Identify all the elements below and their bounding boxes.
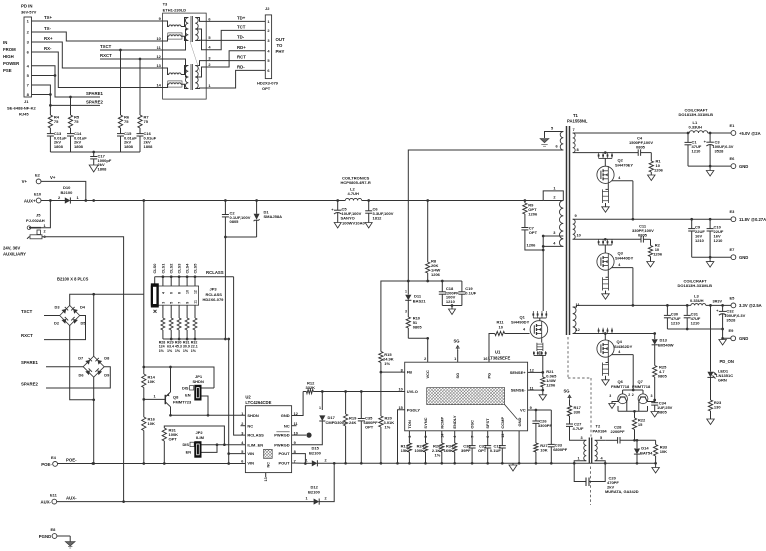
svg-text:15: 15 [398, 406, 402, 410]
svg-text:2: 2 [325, 458, 327, 462]
svg-text:E2: E2 [35, 173, 41, 178]
resistor R33 10K [654, 440, 668, 463]
svg-text:FB: FB [407, 370, 412, 375]
terminal E4 POE- [41, 455, 77, 467]
wire T1 pin 8 row [573, 151, 639, 154]
resistor R1 10 1206 snubber [649, 153, 663, 175]
capacitor C27 4.7UF [566, 422, 586, 441]
svg-text:6: 6 [241, 459, 243, 463]
svg-text:1210: 1210 [446, 299, 456, 304]
svg-text:1210: 1210 [695, 238, 705, 243]
svg-text:1%: 1% [385, 425, 391, 430]
node SG flag (secondary gate) [564, 389, 572, 401]
svg-text:HCP0805-4R7-R: HCP0805-4R7-R [341, 180, 371, 185]
wire SENSE- row [528, 389, 545, 392]
wire Q2 source ladder and ground [602, 183, 610, 212]
wire RCT (T3-3 to J2-5) [206, 55, 265, 61]
svg-text:1206: 1206 [654, 168, 664, 173]
svg-text:HIGH: HIGH [3, 54, 14, 59]
svg-text:CLS2: CLS2 [169, 263, 174, 274]
wire SHDN branch top [144, 366, 214, 388]
svg-text:3300PF: 3300PF [538, 423, 553, 428]
svg-text:D6: D6 [79, 373, 85, 378]
svg-text:D7: D7 [78, 356, 83, 361]
wire bridge 2 bottom to VIN return [92, 377, 95, 465]
svg-text:75: 75 [144, 119, 149, 124]
resistor R32 22.1 1% class resistor [191, 318, 198, 353]
IC U2 LTC4264CDE PD interface controller [241, 395, 298, 482]
svg-text:CLS3: CLS3 [177, 263, 182, 274]
wire Q2 gate drive [612, 176, 635, 221]
transistor Q4 Si4362DY sync FET 3.3V [597, 328, 633, 357]
svg-text:0.33UH: 0.33UH [690, 298, 704, 303]
svg-text:TON: TON [407, 420, 412, 428]
wire SPARE1 net (J1-4,5) [32, 66, 104, 115]
wire U2 NC pin 2 stub [241, 425, 246, 427]
capacitor C1 47UF 1210 [685, 133, 702, 166]
svg-text:330: 330 [574, 410, 581, 415]
svg-text:E7: E7 [730, 247, 736, 252]
svg-text:PD_ON: PD_ON [720, 359, 734, 364]
svg-text:16: 16 [483, 357, 487, 361]
svg-text:CCMP: CCMP [500, 416, 505, 428]
wire driver emitter bus [618, 402, 648, 413]
svg-text:TCT: TCT [237, 24, 246, 29]
resistor R25 4.7 0805 [653, 345, 668, 402]
svg-text:0805: 0805 [230, 219, 240, 224]
svg-text:D2: D2 [54, 321, 60, 326]
wire 11.8V return [692, 256, 731, 259]
terminal E9 GND [729, 328, 749, 341]
svg-text:BAT54: BAT54 [640, 450, 653, 455]
capacitor C18 2200PF 100V [439, 281, 459, 306]
svg-text:VC: VC [520, 408, 526, 413]
svg-text:1: 1 [578, 457, 580, 461]
transformer T3 ETH1-230LD [156, 2, 211, 100]
svg-text:6: 6 [170, 292, 174, 294]
svg-text:1210: 1210 [671, 321, 681, 326]
capacitor C28 2200PF gate drive coupling [605, 425, 655, 444]
svg-text:4.7UF: 4.7UF [573, 426, 584, 431]
wire primary return rail (POUT) [317, 462, 657, 465]
svg-text:SPARE1: SPARE1 [21, 360, 38, 365]
wire 11.8V secondary row (T1 pin 9) [573, 218, 731, 221]
resistor R31 30.9 1% class resistor [183, 318, 190, 353]
svg-text:SPARE2: SPARE2 [21, 382, 38, 387]
svg-text:9: 9 [186, 302, 190, 304]
svg-text:1812: 1812 [373, 216, 383, 221]
svg-text:1: 1 [154, 395, 156, 399]
svg-text:POWER: POWER [3, 61, 20, 66]
svg-text:POUT: POUT [278, 461, 290, 466]
wire 3.3V secondary row (T1 pin 11) [573, 304, 691, 307]
svg-text:3: 3 [241, 431, 243, 435]
diode D10 B2100 [41, 185, 86, 204]
header JP2 ILIM jumper [183, 430, 246, 458]
svg-text:RD-: RD- [237, 64, 245, 69]
svg-text:0805: 0805 [636, 145, 646, 150]
svg-text:RCLASS: RCLASS [206, 292, 223, 297]
svg-text:1206: 1206 [431, 272, 441, 277]
svg-text:2200PF: 2200PF [611, 429, 626, 434]
wire Q3 gate drive [612, 263, 635, 307]
node B2100 X 8 PLCS note [57, 277, 89, 282]
svg-text:12: 12 [193, 290, 197, 294]
svg-text:SENSE+: SENSE+ [510, 370, 527, 375]
svg-text:CLS1: CLS1 [160, 263, 165, 274]
wire Q4 source ladder and ground [602, 357, 610, 385]
svg-text:B2100: B2100 [61, 190, 74, 195]
svg-text:130: 130 [714, 405, 721, 410]
svg-text:SMAJ58A: SMAJ58A [264, 214, 283, 219]
svg-text:DO1813H-331MLB: DO1813H-331MLB [679, 112, 714, 117]
capacitor C13 0.01uF 2kV [47, 128, 67, 152]
svg-text:7: 7 [573, 127, 575, 132]
resistor R29 63.4 1% class resistor [167, 318, 174, 353]
svg-text:1: 1 [306, 497, 308, 501]
svg-text:HD2X6-079: HD2X6-079 [203, 297, 225, 302]
svg-text:CLS0: CLS0 [152, 264, 157, 274]
svg-text:PHY: PHY [276, 49, 285, 54]
wire TXCT net (to T3-11) [100, 44, 163, 115]
svg-text:15K: 15K [401, 448, 408, 453]
svg-text:SHDN: SHDN [193, 379, 204, 384]
svg-text:SHDN: SHDN [247, 413, 258, 418]
wire SPARE1 to bridge 2 [21, 360, 83, 367]
svg-text:75: 75 [74, 119, 79, 124]
svg-text:E5: E5 [730, 296, 736, 301]
wire VCC feed [408, 337, 429, 362]
svg-text:10: 10 [186, 290, 190, 294]
diode D17 CMPD3003 [319, 392, 347, 425]
wire SHDN row to U2 pin 1 [169, 414, 245, 417]
svg-text:T3: T3 [163, 2, 168, 7]
svg-text:TD-: TD- [237, 34, 245, 39]
transistor Q8 FMMT723 [144, 367, 192, 415]
ground (primary rail) [509, 463, 517, 471]
svg-text:PD IN: PD IN [21, 4, 32, 9]
svg-text:Si4362DY: Si4362DY [614, 344, 633, 349]
svg-text:RJ45: RJ45 [19, 112, 29, 117]
svg-text:10: 10 [156, 36, 160, 41]
transformer T2 PA0184 gate drive [574, 424, 607, 464]
capacitor C17 1000pF 2kV [90, 152, 112, 171]
svg-text:0805: 0805 [658, 374, 668, 379]
wire TD+ (T3-6 to J2-1) [206, 15, 265, 21]
svg-text:EN: EN [185, 393, 191, 398]
svg-text:PJ-002AH: PJ-002AH [26, 218, 45, 223]
bridge rectifier D3 D4 D2 D5 (B2100) [54, 305, 86, 326]
svg-text:1%: 1% [175, 349, 181, 353]
svg-text:FMMT723: FMMT723 [173, 400, 192, 405]
resistor R26 2.1K 1% (RCMP) [432, 443, 444, 463]
svg-text:3528: 3528 [726, 318, 736, 323]
wire TD- (T3-5 to J2-3) [206, 34, 265, 40]
svg-text:0.1UF: 0.1UF [465, 290, 476, 295]
svg-text:2: 2 [628, 393, 630, 397]
svg-text:6800PF: 6800PF [553, 447, 568, 452]
capacitor C19 0.1UF [458, 281, 476, 306]
svg-text:OUT: OUT [276, 37, 285, 42]
svg-text:SPARE2: SPARE2 [86, 100, 103, 105]
svg-text:ENDLY: ENDLY [452, 415, 457, 429]
ground (LED) [707, 419, 715, 425]
svg-text:1: 1 [241, 412, 243, 416]
svg-text:3: 3 [405, 310, 407, 314]
diode D11 BAS21 [405, 281, 426, 314]
svg-text:B2100 X 8 PLCS: B2100 X 8 PLCS [57, 277, 89, 282]
ground (sense) [539, 390, 547, 400]
svg-text:36V-57V: 36V-57V [21, 10, 37, 15]
terminal E5 3.3V [730, 296, 762, 309]
ground (C6) [365, 223, 372, 229]
terminal E2 V+ [22, 173, 41, 185]
svg-text:OPT: OPT [478, 448, 487, 453]
svg-text:SE-6488-NF-K2: SE-6488-NF-K2 [7, 106, 36, 111]
svg-text:332K: 332K [306, 385, 316, 390]
svg-text:GND: GND [281, 413, 290, 418]
svg-text:0805: 0805 [413, 325, 423, 330]
svg-text:J5: J5 [36, 213, 41, 218]
capacitor C26 3300PF (VC) [532, 410, 552, 443]
svg-text:SYNC: SYNC [423, 417, 428, 428]
capacitor C30 47UF 1210 [664, 305, 681, 329]
wire U2 VIN pin 5 [229, 453, 246, 455]
terminal E11 AUX- [40, 493, 77, 505]
svg-text:E4: E4 [51, 455, 57, 460]
resistor R6 75 [118, 115, 129, 129]
svg-text:75: 75 [54, 119, 59, 124]
resistor R5 75 [68, 115, 79, 129]
svg-text:DO1813H-331MLB: DO1813H-331MLB [678, 283, 713, 288]
svg-text:SG: SG [564, 389, 570, 394]
wire +5V return [688, 165, 731, 168]
svg-text:11: 11 [193, 300, 197, 304]
capacitor C15 0.01uF 2kV [117, 128, 137, 152]
capacitor C6 3.3UF 100V 1812 [365, 201, 394, 223]
svg-text:SG: SG [454, 339, 460, 344]
resistor R27 10K (VC) [534, 443, 549, 463]
capacitor C2 0.1uF 100V input bypass [222, 201, 251, 238]
resistor R22 15 driver output [632, 411, 646, 441]
svg-text:POUT: POUT [278, 451, 290, 456]
resistor R12 332K [303, 381, 315, 394]
ground (VCC caps) [449, 304, 456, 314]
svg-text:B2100: B2100 [309, 450, 322, 455]
svg-text:FMMT718: FMMT718 [611, 384, 630, 389]
ground (11.8V output) [706, 257, 714, 267]
inductor L3 0.33UH Coilcraft [678, 279, 732, 307]
svg-text:RCT: RCT [237, 55, 246, 60]
svg-text:E6: E6 [730, 156, 736, 161]
svg-text:1206: 1206 [527, 243, 537, 248]
wire RXCT to bridge 1 [21, 316, 86, 340]
svg-text:24V, 36V: 24V, 36V [3, 246, 20, 251]
svg-text:10: 10 [577, 233, 581, 238]
svg-text:3528: 3528 [715, 149, 725, 154]
svg-text:TX-: TX- [44, 26, 51, 31]
svg-text:V+: V+ [50, 175, 56, 180]
svg-text:E10: E10 [34, 192, 42, 197]
wire Q7 collector to bias node [647, 401, 655, 403]
wire TCT (J2-2 to T3-4) [206, 24, 265, 49]
svg-text:OPT: OPT [169, 437, 178, 442]
wire bridge 1 negative output [70, 326, 95, 402]
svg-text:1808: 1808 [144, 144, 154, 149]
svg-text:3.3V @2.5A: 3.3V @2.5A [739, 303, 762, 308]
svg-text:D4: D4 [80, 305, 86, 310]
svg-text:VIN: VIN [247, 461, 254, 466]
svg-text:1808: 1808 [98, 166, 108, 171]
resistor R16 10K [142, 399, 156, 464]
svg-text:RX-: RX- [44, 46, 52, 51]
svg-text:1%: 1% [159, 349, 165, 353]
svg-text:4: 4 [161, 292, 165, 294]
svg-text:1808: 1808 [74, 144, 84, 149]
svg-text:1206: 1206 [528, 212, 538, 217]
wire J5 tip to AUX+ rail [41, 201, 50, 228]
wire PGDLY to rail [398, 410, 405, 464]
svg-text:1206: 1206 [546, 382, 556, 387]
wire RD+ (J2-4 to T3-2) [206, 45, 265, 67]
svg-text:3: 3 [161, 302, 165, 304]
wire class resistor common rail [163, 338, 229, 341]
svg-text:PG: PG [486, 373, 491, 379]
wire U2 VIN pin 6 / POE- rail left [58, 462, 246, 465]
svg-text:OPT: OPT [262, 86, 271, 91]
svg-text:NC: NC [284, 423, 290, 428]
svg-text:PA0184: PA0184 [593, 428, 608, 433]
svg-text:B2100: B2100 [308, 489, 321, 494]
svg-text:10K: 10K [540, 448, 547, 453]
svg-text:75: 75 [124, 119, 129, 124]
wire switch node T1-3,4 to Q1 drain [542, 246, 544, 311]
svg-text:0805: 0805 [638, 233, 648, 238]
capacitor C10 22UF 16V 1210 [707, 219, 724, 257]
ground (R2) [647, 262, 655, 268]
capacitor C9 22UF 16V 1210 [688, 219, 705, 257]
wire RX+ (J1-3 to T3-13) [32, 36, 163, 68]
wire V+ from E2 to AUX rail [41, 175, 86, 201]
resistor R17 330 [567, 400, 581, 424]
svg-text:3R3V: 3R3V [713, 300, 723, 304]
svg-text:SPARE1: SPARE1 [86, 91, 103, 96]
svg-text:EN: EN [186, 450, 192, 455]
svg-text:E9: E9 [729, 328, 735, 333]
svg-text:1: 1 [306, 458, 308, 462]
wire bias node row [408, 280, 462, 283]
capacitor C16 0.01uF 2kV [137, 128, 157, 152]
svg-text:POE-: POE- [41, 462, 52, 467]
svg-text:D3: D3 [55, 305, 61, 310]
svg-text:DIS: DIS [182, 386, 189, 391]
svg-text:13: 13 [264, 477, 268, 481]
transformer T1 PA1558NL [408, 113, 588, 335]
svg-text:BAS21: BAS21 [413, 298, 427, 303]
diode D15 B2100 output disconnect [305, 446, 327, 467]
svg-text:1%: 1% [435, 453, 441, 458]
capacitor C20 470PF Y-cap isolation [574, 463, 639, 494]
resistor R28 124 1% class resistor [159, 318, 166, 353]
wire RX- (J1-6 to T3-14) [32, 46, 163, 88]
connector J1 RJ45 SI-6488-NF-K2 (PD input) [3, 4, 37, 117]
resistor R30 45.3 1% class resistor [175, 318, 182, 353]
capacitor C31 OPT (SFST) [478, 443, 491, 463]
transistor Q1 Si4490DY primary MOSFET [511, 311, 548, 338]
svg-text:D5: D5 [81, 321, 87, 326]
svg-text:AUX+: AUX+ [24, 199, 36, 204]
wire Q1 source ladder [533, 338, 547, 372]
svg-text:LTC4264CDE: LTC4264CDE [245, 400, 271, 405]
wire isolation boundary (dashed) [568, 337, 591, 505]
svg-text:1808: 1808 [54, 144, 64, 149]
resistor R4 75 [48, 115, 59, 129]
svg-text:2: 2 [632, 393, 634, 397]
svg-text:AUX-: AUX- [40, 500, 51, 505]
wire bridge 1 positive output [70, 293, 144, 306]
terminal E10 AUX+ [24, 192, 42, 204]
svg-text:HD2X3-079: HD2X3-079 [257, 81, 279, 86]
svg-text:GND: GND [517, 418, 522, 427]
wire U2 POUT pin 8 [292, 454, 307, 465]
svg-text:OPT: OPT [529, 230, 538, 235]
svg-text:10K: 10K [660, 449, 667, 454]
resistor R24 100K (SYNC) [414, 443, 427, 463]
diode D13 B0540W [652, 334, 674, 348]
svg-text:PGND: PGND [39, 534, 51, 539]
svg-text:GRN: GRN [718, 378, 727, 383]
capacitor C34 1UF 25V 0805 [651, 400, 673, 417]
svg-text:0.33UH: 0.33UH [689, 125, 703, 130]
svg-text:11.8V @0.27A: 11.8V @0.27A [739, 217, 766, 222]
resistor R15 24.9K 1% [379, 281, 409, 373]
svg-text:ILIM: ILIM [196, 435, 205, 440]
svg-text:TX+: TX+ [44, 15, 52, 20]
ground (Q6 collector) [609, 402, 619, 409]
wire RXCT net (to T3-12) [100, 53, 163, 115]
diode D12 B2100 aux OR-ing [306, 463, 335, 504]
node SG flag at U1 pin 1 [454, 339, 460, 363]
svg-text:3: 3 [651, 394, 653, 398]
svg-text:+5.0V @2A: +5.0V @2A [739, 131, 761, 136]
svg-text:10: 10 [499, 325, 504, 330]
capacitor C3 100UF 6.3V 3528 [704, 133, 734, 166]
svg-text:PGDLY: PGDLY [407, 407, 421, 412]
connector J2 HD2X3-079 (to PHY) [257, 6, 285, 91]
wire VCC cap return [442, 305, 462, 307]
resistor R21 0.065 1/4W sense [541, 369, 557, 390]
ground (C5) [334, 223, 341, 229]
wire AUX- row [57, 501, 314, 503]
ground (secondary drive return) [652, 463, 660, 473]
svg-text:0.1UF: 0.1UF [490, 448, 501, 453]
ground (5V output) [706, 166, 714, 176]
svg-text:POE-: POE- [66, 458, 77, 463]
wire T1 pin 6 bias winding [407, 150, 561, 282]
svg-text:Si4440DY: Si4440DY [615, 255, 634, 260]
svg-text:VCC: VCC [425, 370, 430, 379]
diode D14 BAT54 [634, 440, 653, 463]
resistor R8 20K trickle [426, 201, 441, 282]
IC U1 LT3825EFE flyback controller [398, 350, 533, 464]
svg-text:RCMP: RCMP [439, 416, 444, 428]
wire RCLASS bus [155, 270, 246, 435]
svg-text:1%: 1% [384, 361, 390, 366]
svg-text:8: 8 [178, 292, 182, 294]
header JP3 RCLASS HD2X6-079 [151, 284, 224, 318]
svg-text:FMMT718: FMMT718 [632, 384, 651, 389]
svg-text:RCLASS: RCLASS [206, 270, 224, 275]
